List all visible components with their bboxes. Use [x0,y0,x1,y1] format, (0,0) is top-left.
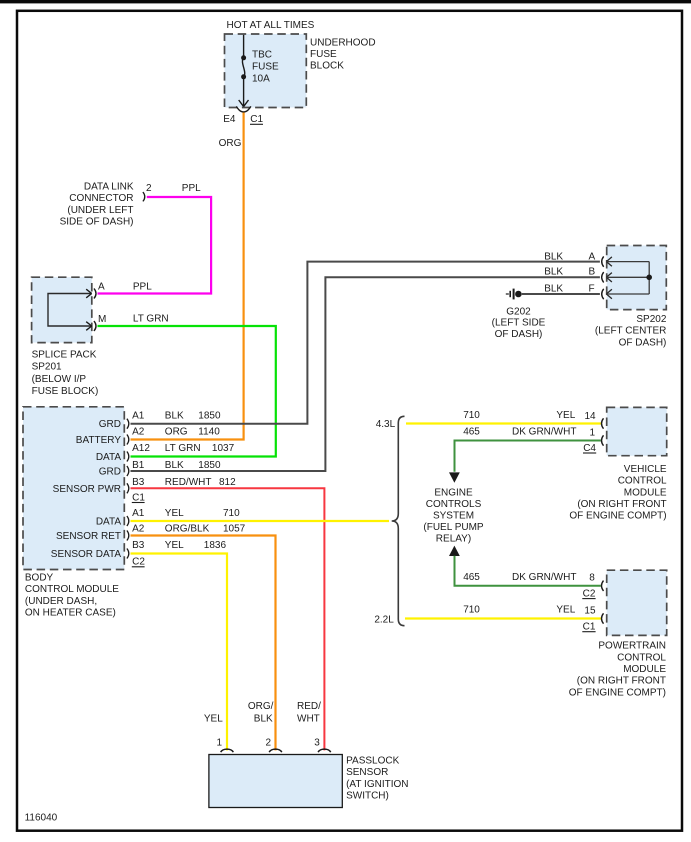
svg-text:1057: 1057 [223,523,246,534]
svg-text:CONTROLS: CONTROLS [426,499,482,510]
svg-text:2: 2 [266,737,272,748]
svg-text:(ON RIGHT FRONT: (ON RIGHT FRONT [577,676,666,687]
labels 465 DK GRN/WHT 8 [463,572,595,584]
svg-text:PPL: PPL [182,183,201,194]
SP202 pin A [602,256,604,266]
labels 710 YEL 14 [463,410,596,422]
svg-text:SYSTEM: SYSTEM [433,511,474,522]
svg-text:DK GRN/WHT: DK GRN/WHT [512,427,576,438]
svg-text:B1: B1 [132,460,145,471]
svg-text:ORG/BLK: ORG/BLK [165,523,210,534]
vehicle control module box [607,407,667,455]
splice pin M [94,321,96,331]
svg-text:VEHICLE: VEHICLE [624,464,667,475]
svg-text:4.3L: 4.3L [376,419,396,430]
svg-text:2: 2 [146,183,152,194]
svg-text:BLK: BLK [544,283,563,294]
ground G202 [506,289,514,300]
svg-text:C1: C1 [250,114,263,125]
svg-text:1850: 1850 [198,460,221,471]
svg-text:812: 812 [219,477,236,488]
svg-text:YEL: YEL [204,713,223,724]
svg-text:(BELOW I/P: (BELOW I/P [32,374,87,385]
label G202 [492,307,546,340]
BCM pin row labels [132,410,246,567]
svg-text:1: 1 [217,737,223,748]
wire DK GRN/WHT 465 to VCM 1 [455,441,601,472]
svg-text:465: 465 [463,572,480,583]
svg-text:RED/: RED/ [297,701,321,712]
svg-text:SENSOR PWR: SENSOR PWR [53,484,121,495]
pin labels A M [98,282,106,326]
label BODY CONTROL MODULE [25,573,119,619]
data link connector labels [60,182,134,228]
svg-text:DATA: DATA [96,452,122,463]
svg-text:(UNDER LEFT: (UNDER LEFT [67,205,133,216]
svg-text:1037: 1037 [212,443,235,454]
svg-text:116040: 116040 [25,813,58,824]
svg-text:(ON RIGHT FRONT: (ON RIGHT FRONT [577,499,666,510]
PCM pin 15 [602,613,604,623]
wire BLK 1850 BCM A1 to SP202 A [131,262,600,424]
label SPLICE PACK SP201 [32,350,99,398]
BCM internal pin names [51,419,122,560]
label SP202 [595,314,667,348]
svg-text:CONTROL: CONTROL [617,652,666,663]
svg-text:DK GRN/WHT: DK GRN/WHT [512,572,576,583]
svg-text:OF ENGINE COMPT): OF ENGINE COMPT) [569,687,666,698]
svg-text:1836: 1836 [204,540,227,551]
svg-text:(LEFT SIDE: (LEFT SIDE [492,318,546,329]
svg-text:YEL: YEL [556,410,575,421]
wire YEL 1836 BCM B3 to passlock 1 [131,554,228,751]
SP202 internal bus [606,262,649,294]
wire YEL 710 4.3L to VCM 14 [406,422,601,424]
svg-text:465: 465 [463,427,480,438]
svg-text:PPL: PPL [133,282,152,293]
svg-text:G202: G202 [506,307,531,318]
connector SP202 box [607,246,667,310]
DLC pin connector [143,192,145,201]
svg-text:FUSE: FUSE [310,49,337,60]
svg-text:WHT: WHT [297,713,320,724]
svg-text:ORG: ORG [165,426,188,437]
svg-text:14: 14 [585,411,597,422]
SP202 pin F [602,289,604,299]
wire LT GRN 1037 splice M to BCM A12 [98,326,276,457]
svg-text:B3: B3 [132,477,145,488]
svg-text:8: 8 [589,573,595,584]
svg-text:SP201: SP201 [32,362,62,373]
svg-text:CONTROL MODULE: CONTROL MODULE [25,584,119,595]
passlock sensor box [209,755,342,808]
svg-text:C4: C4 [583,443,596,454]
svg-text:SPLICE PACK: SPLICE PACK [32,350,97,361]
svg-text:BLK: BLK [254,713,273,724]
connector E4 C1 [236,106,251,112]
svg-text:BATTERY: BATTERY [76,435,122,446]
svg-text:A12: A12 [132,443,150,454]
svg-text:FUSE BLOCK): FUSE BLOCK) [32,386,99,397]
svg-text:FUSE: FUSE [252,62,279,73]
body control module box [23,407,124,570]
fuse value label [252,50,279,85]
svg-text:RELAY): RELAY) [436,534,471,545]
svg-text:C1: C1 [583,622,596,633]
svg-text:ORG/: ORG/ [248,701,274,712]
svg-text:C2: C2 [132,557,145,568]
brace [392,416,405,625]
powertrain control module box [607,570,667,635]
wire BLK G202 to SP202 F [522,293,600,295]
svg-text:SIDE OF DASH): SIDE OF DASH) [60,217,134,228]
svg-text:710: 710 [223,508,240,519]
svg-text:BODY: BODY [25,573,54,584]
BCM pin connectors [127,419,129,559]
svg-text:OF DASH): OF DASH) [495,329,543,340]
svg-text:B: B [589,267,596,278]
svg-text:C1: C1 [132,492,145,503]
label POWERTRAIN CONTROL MODULE [569,641,667,699]
svg-text:POWERTRAIN: POWERTRAIN [598,641,666,652]
svg-text:OF DASH): OF DASH) [619,337,667,348]
svg-text:A: A [589,251,596,262]
svg-text:SENSOR: SENSOR [346,767,388,778]
svg-text:ENGINE: ENGINE [434,488,473,499]
svg-text:SP202: SP202 [636,314,666,325]
wire YEL 710 2.2L to PCM 15 [405,617,601,619]
label VEHICLE CONTROL MODULE [569,464,667,522]
VCM pin 14 [602,418,604,428]
svg-text:F: F [589,283,595,294]
svg-text:(LEFT CENTER: (LEFT CENTER [595,326,667,337]
SP202 pin B [602,272,604,282]
splice pin A [94,289,96,299]
svg-text:710: 710 [463,605,480,616]
labels YEL ORG/BLK RED/WHT [204,701,321,725]
svg-text:BLK: BLK [544,251,563,262]
wire ORG/BLK 1057 BCM A2 to passlock 2 [131,536,276,751]
svg-text:ORG: ORG [219,138,242,149]
wire RED/WHT 812 BCM B3 to passlock 3 [131,488,325,750]
PCM pin 8 [602,581,604,591]
svg-text:LT GRN: LT GRN [165,443,201,454]
pin numbers 1 2 3 [217,737,321,748]
labels 710 YEL 15 [463,605,596,617]
wire DK GRN/WHT 465 to PCM 8 [449,546,460,556]
svg-text:TBC: TBC [252,50,272,61]
svg-text:OF ENGINE COMPT): OF ENGINE COMPT) [569,511,666,522]
svg-text:ON HEATER CASE): ON HEATER CASE) [25,608,116,619]
wire PPL from DLC to splice pack A [98,197,212,294]
wire BLK 1850 BCM B1 to SP202 B [131,277,600,471]
svg-text:BLK: BLK [544,267,563,278]
wire YEL 710 BCM A1 to engine controls [131,520,390,522]
svg-text:PASSLOCK: PASSLOCK [346,755,399,766]
svg-text:710: 710 [463,410,480,421]
svg-text:A1: A1 [132,410,145,421]
svg-text:MODULE: MODULE [623,664,666,675]
svg-text:(UNDER DASH,: (UNDER DASH, [25,596,97,607]
svg-text:A: A [98,282,105,293]
svg-text:YEL: YEL [165,508,184,519]
svg-text:(AT IGNITION: (AT IGNITION [346,779,408,790]
svg-text:M: M [98,314,106,325]
svg-text:A1: A1 [132,508,145,519]
labels 465 DK GRN/WHT 1 [463,427,595,439]
svg-text:B3: B3 [132,540,145,551]
underhood fuse block [225,34,307,108]
svg-text:3: 3 [314,737,320,748]
svg-text:HOT AT ALL TIMES: HOT AT ALL TIMES [227,20,315,31]
junction dot [646,275,652,281]
passlock pin connectors [221,749,331,752]
VCM pin 1 [602,435,604,445]
svg-text:CONTROL: CONTROL [618,476,667,487]
labels BLK A B F [544,251,595,294]
svg-text:1140: 1140 [198,426,220,437]
svg-text:E4: E4 [223,114,236,125]
svg-text:2.2L: 2.2L [374,615,394,626]
svg-text:GRD: GRD [99,467,121,478]
svg-text:BLK: BLK [165,410,184,421]
wire ORG 1140 from fuse to BCM A2 [131,113,244,440]
svg-text:A2: A2 [132,523,145,534]
svg-text:SENSOR RET: SENSOR RET [56,531,121,542]
svg-text:DATA LINK: DATA LINK [84,182,134,193]
svg-text:YEL: YEL [556,605,575,616]
svg-text:BLOCK: BLOCK [310,61,344,72]
label UNDERHOOD FUSE BLOCK [310,38,376,72]
label PASSLOCK SENSOR [346,755,408,801]
svg-text:GRD: GRD [99,419,121,430]
svg-text:SENSOR DATA: SENSOR DATA [51,549,122,560]
splice pack SP201 box [32,277,92,342]
fuse TBC 10A [242,35,244,107]
svg-text:SWITCH): SWITCH) [346,791,389,802]
svg-text:LT GRN: LT GRN [133,314,169,325]
svg-text:10A: 10A [252,74,270,85]
svg-text:A2: A2 [132,426,145,437]
svg-text:MODULE: MODULE [624,487,667,498]
svg-text:RED/WHT: RED/WHT [165,477,212,488]
label ENGINE CONTROLS SYSTEM [423,488,484,545]
svg-text:(FUEL PUMP: (FUEL PUMP [423,522,484,533]
svg-text:15: 15 [584,606,596,617]
svg-text:YEL: YEL [165,540,184,551]
svg-text:DATA: DATA [96,517,122,528]
svg-text:BLK: BLK [165,460,184,471]
svg-text:UNDERHOOD: UNDERHOOD [310,38,376,49]
splice pack bus [48,294,91,327]
svg-text:CONNECTOR: CONNECTOR [69,193,133,204]
svg-text:1850: 1850 [198,410,221,421]
svg-text:1: 1 [590,427,596,438]
svg-text:C2: C2 [583,589,596,600]
